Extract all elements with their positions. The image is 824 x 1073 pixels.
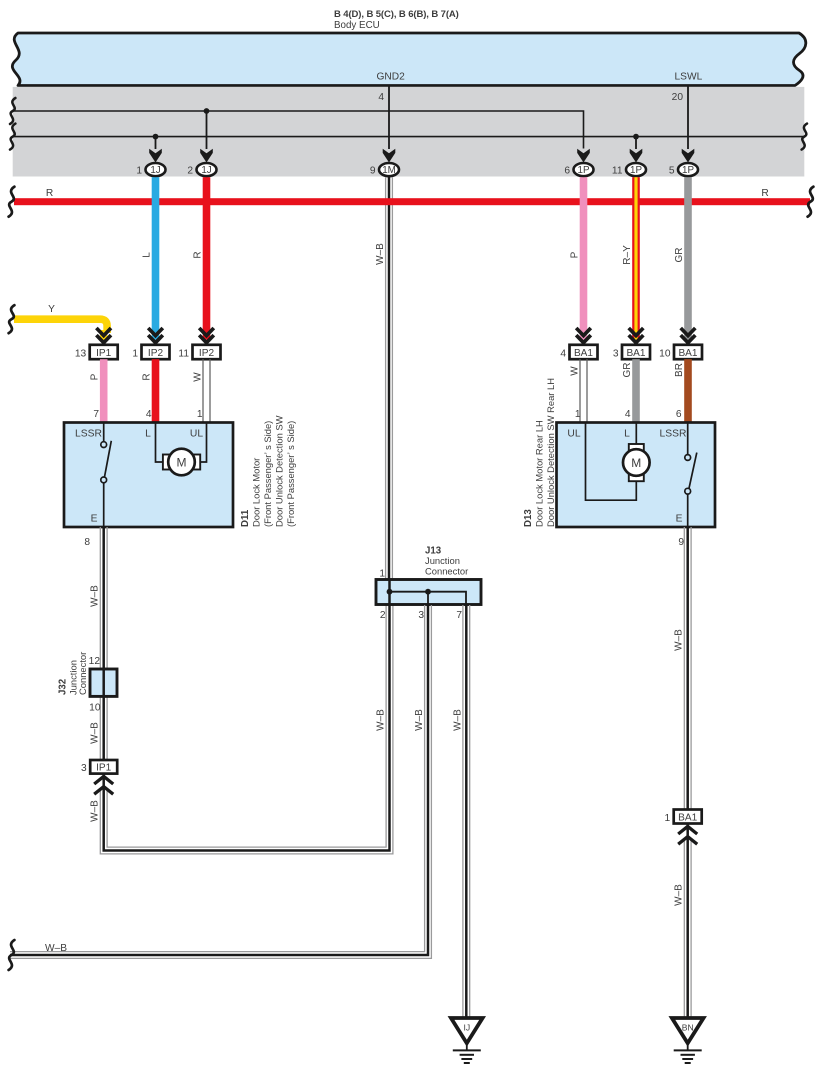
svg-text:IP1: IP1 — [96, 348, 112, 359]
svg-text:R: R — [193, 251, 204, 258]
motor M D13 — [586, 423, 650, 500]
svg-text:2: 2 — [380, 610, 386, 621]
svg-text:3: 3 — [613, 349, 619, 360]
svg-text:9: 9 — [678, 537, 684, 548]
svg-text:L: L — [142, 252, 153, 258]
svg-text:BA1: BA1 — [678, 348, 697, 359]
svg-text:10: 10 — [659, 349, 671, 360]
svg-text:7: 7 — [93, 409, 99, 420]
svg-text:(Front Passenger’ s Side): (Front Passenger’ s Side) — [262, 421, 273, 527]
svg-text:GR: GR — [622, 363, 633, 378]
svg-text:E: E — [91, 514, 98, 525]
svg-text:W–B: W–B — [414, 709, 425, 731]
svg-text:W–B: W–B — [90, 722, 101, 744]
wire R-Y (red/yellow) from 1P pin11 — [632, 177, 640, 340]
connector 1J pin 1 — [136, 163, 165, 176]
wire R (red) IP2-1 to D11 pin4 — [152, 359, 160, 423]
svg-text:W: W — [570, 366, 581, 376]
svg-text:6: 6 — [564, 165, 570, 176]
svg-text:Door Unlock Detection SW: Door Unlock Detection SW — [274, 415, 285, 527]
wire GND2 drop — [388, 86, 390, 149]
wire W-B from D11 E pin8 to IP1 pin3 — [100, 527, 107, 760]
svg-text:LSWL: LSWL — [675, 72, 703, 83]
svg-text:20: 20 — [672, 92, 684, 103]
connector IP1 pin 13 — [75, 345, 118, 360]
wire drop to 1J pin1 + node dot — [153, 134, 159, 149]
wire W (white) IP2-11 to D11 pin1 — [203, 359, 210, 423]
svg-text:9: 9 — [370, 165, 376, 176]
connector IP2 pin 11 — [178, 345, 220, 360]
svg-text:LSSR: LSSR — [75, 429, 102, 440]
wire R bus — [14, 198, 810, 205]
svg-text:11: 11 — [178, 349, 189, 360]
bus wire B (lower) — [13, 136, 805, 138]
svg-text:R–Y: R–Y — [622, 245, 633, 265]
connector 1P pin 11 — [612, 163, 646, 176]
svg-text:Connector: Connector — [77, 652, 88, 695]
switch SW D13 (door unlock detection) — [685, 423, 697, 527]
wire W-B from D13 E pin9 to BA1 pin1 — [684, 527, 691, 810]
wire GR (gray) BA1-3 to D13 pin4 — [632, 359, 640, 423]
svg-text:1: 1 — [132, 349, 138, 360]
svg-text:W–B: W–B — [376, 709, 387, 731]
svg-text:4: 4 — [560, 349, 566, 360]
svg-text:IP1: IP1 — [96, 762, 112, 773]
svg-text:1P: 1P — [630, 165, 642, 176]
break mark R bus left — [9, 187, 15, 217]
arrow into connector BA1 pin3 — [629, 328, 644, 346]
svg-text:1: 1 — [379, 569, 385, 580]
svg-text:L: L — [624, 429, 630, 440]
svg-text:W–B: W–B — [674, 884, 685, 906]
svg-text:8: 8 — [84, 537, 90, 548]
svg-text:IJ: IJ — [463, 1023, 470, 1033]
svg-text:2: 2 — [187, 165, 193, 176]
svg-text:BA1: BA1 — [678, 812, 697, 823]
svg-text:W–B: W–B — [452, 709, 463, 731]
svg-text:1M: 1M — [382, 165, 396, 176]
svg-text:P: P — [90, 373, 101, 380]
arrow into connector IP2 pin11 — [199, 328, 214, 346]
arrow into connector BA1 pin10 — [681, 328, 696, 346]
arrow into connector IP1 pin3 — [94, 776, 113, 794]
break mark bus B right — [802, 124, 807, 150]
svg-text:BN: BN — [682, 1023, 694, 1033]
switch SW D11 (door unlock detection) — [101, 423, 112, 527]
svg-text:6: 6 — [676, 409, 682, 420]
connector 1M pin 9 — [370, 163, 399, 176]
svg-text:Junction: Junction — [425, 555, 460, 566]
wire L (blue) from 1J pin1 — [152, 177, 160, 340]
junction connector J32 — [90, 669, 117, 696]
arrow into connector 1J pin1 — [149, 149, 162, 163]
svg-text:W: W — [193, 372, 204, 382]
svg-text:W–B: W–B — [90, 800, 101, 822]
wire P (pink) from 1P pin6 — [580, 177, 588, 340]
svg-text:1: 1 — [136, 165, 142, 176]
svg-text:BA1: BA1 — [626, 348, 645, 359]
connector 1P pin 6 — [564, 163, 593, 176]
junction connector J13 box — [376, 580, 481, 605]
svg-text:D13: D13 — [523, 509, 534, 527]
arrow into connector 1M pin9 — [383, 149, 396, 163]
break mark bus B left — [10, 124, 15, 150]
wire drop to 1J pin2 + node dot — [204, 108, 210, 149]
arrow into connector BA1 pin4 — [576, 328, 591, 346]
svg-text:LSSR: LSSR — [660, 429, 687, 440]
connector IP2 pin 1 — [132, 345, 169, 360]
svg-text:13: 13 — [75, 349, 87, 360]
svg-text:12: 12 — [89, 656, 101, 667]
arrow into connector IP1 pin13 — [96, 328, 111, 346]
svg-text:UL: UL — [190, 429, 203, 440]
svg-text:W–B: W–B — [674, 629, 685, 651]
arrow into connector 1J pin2 — [200, 149, 213, 163]
svg-text:IP2: IP2 — [199, 348, 215, 359]
svg-text:Door Lock Motor: Door Lock Motor — [251, 458, 262, 527]
wire W-B from J13 pin7 to ground IJ — [463, 605, 470, 1018]
svg-text:10: 10 — [89, 703, 101, 714]
wire W-B from IP1 pin3 to J13 pin2 — [100, 605, 393, 854]
wire W-B from 1M pin9 to J13 pin1 — [386, 177, 393, 579]
svg-text:4: 4 — [625, 409, 631, 420]
wire W-B from J13 pin3 to left off-page — [10, 605, 431, 958]
connector BA1 pin 10 — [659, 345, 702, 360]
connector IP1 pin 3 — [81, 760, 117, 774]
svg-text:P: P — [570, 251, 581, 258]
wire Y (yellow) — [14, 319, 107, 333]
svg-text:3: 3 — [81, 763, 87, 774]
svg-text:1P: 1P — [682, 165, 694, 176]
ground IJ — [451, 1018, 483, 1063]
connector 1P pin 5 — [669, 163, 698, 176]
svg-text:UL: UL — [567, 429, 580, 440]
svg-text:L: L — [145, 429, 151, 440]
svg-text:1P: 1P — [578, 165, 590, 176]
svg-text:7: 7 — [456, 610, 462, 621]
svg-text:GND2: GND2 — [377, 72, 406, 83]
Body ECU block — [12, 33, 805, 86]
svg-text:R: R — [142, 373, 153, 380]
wire GR (gray) from 1P pin5 — [684, 177, 692, 340]
svg-text:IP2: IP2 — [148, 348, 164, 359]
component D13 Door Lock Motor rear LH box — [557, 423, 716, 528]
ground BN — [672, 1018, 704, 1063]
svg-text:1J: 1J — [201, 165, 211, 176]
svg-text:5: 5 — [669, 165, 675, 176]
arrow into connector IP2 pin1 — [148, 328, 163, 346]
svg-text:3: 3 — [418, 610, 424, 621]
svg-text:R: R — [46, 188, 53, 199]
wire W-B from BA1 pin1 to ground BN — [684, 824, 691, 1019]
wire drop to 1P pin11 + node dot — [633, 134, 639, 149]
connector BA1 pin 1 — [665, 810, 702, 824]
svg-text:M: M — [631, 456, 641, 470]
svg-text:M: M — [177, 456, 187, 470]
svg-text:GR: GR — [674, 248, 685, 263]
wire BR (brown) BA1-10 to D13 pin6 — [684, 359, 692, 423]
svg-text:11: 11 — [612, 165, 623, 176]
svg-text:BR: BR — [674, 363, 685, 377]
svg-text:1: 1 — [197, 409, 203, 420]
svg-text:D11: D11 — [240, 509, 251, 527]
svg-text:B 4(D), B 5(C), B 6(B), B 7(A): B 4(D), B 5(C), B 6(B), B 7(A) — [334, 9, 459, 20]
svg-text:W–B: W–B — [375, 243, 386, 265]
arrow into connector 1P pin5 — [682, 149, 695, 163]
motor M D11 — [156, 423, 207, 475]
svg-text:W–B: W–B — [45, 943, 67, 954]
component D11 Door Lock Motor front passenger box — [64, 423, 233, 528]
wire P (pink) IP1-13 to D11 pin7 — [100, 359, 108, 423]
wire W (white) BA1-4 to D13 pin1 — [580, 359, 587, 423]
svg-text:Y: Y — [48, 304, 55, 315]
break mark R bus right — [808, 187, 814, 217]
svg-text:4: 4 — [378, 92, 384, 103]
svg-text:Door Lock Motor Rear LH: Door Lock Motor Rear LH — [534, 420, 545, 527]
wire LSWL drop — [687, 86, 689, 149]
svg-text:BA1: BA1 — [574, 348, 593, 359]
break mark Y left — [9, 305, 15, 333]
connector BA1 pin 4 — [560, 345, 597, 360]
svg-text:(Front Passenger’ s Side): (Front Passenger’ s Side) — [285, 421, 296, 527]
arrow into connector 1P pin11 — [630, 149, 643, 163]
arrow into connector BA1 pin1 — [678, 826, 697, 844]
svg-text:1: 1 — [575, 409, 581, 420]
svg-text:Body ECU: Body ECU — [334, 20, 380, 31]
svg-text:1: 1 — [665, 813, 671, 824]
break mark bus A left — [10, 98, 15, 124]
arrow into connector 1P pin6 — [577, 149, 590, 163]
svg-text:R: R — [761, 188, 768, 199]
harness band — [13, 87, 805, 177]
svg-text:4: 4 — [146, 409, 152, 420]
svg-text:W–B: W–B — [90, 585, 101, 607]
svg-text:E: E — [676, 514, 683, 525]
svg-text:Door Unlock Detection SW Rear: Door Unlock Detection SW Rear LH — [545, 378, 556, 527]
bus wire A (upper) — [13, 111, 584, 149]
break mark W-B bottom left — [9, 940, 15, 970]
wire R (red) from 1J pin2 — [203, 177, 211, 340]
connector BA1 pin 3 — [613, 345, 650, 360]
svg-text:Connector: Connector — [425, 566, 468, 577]
connector 1J pin 2 — [187, 163, 216, 176]
svg-text:1J: 1J — [150, 165, 160, 176]
